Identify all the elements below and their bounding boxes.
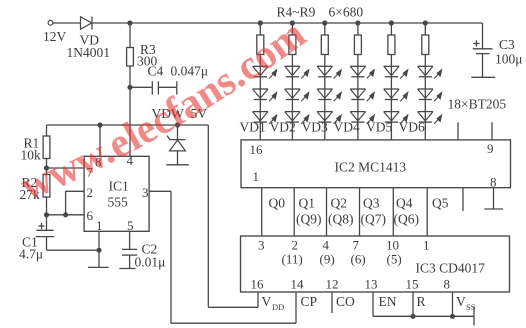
LED VD2 row2 xyxy=(285,89,309,101)
LED VD4 row1 xyxy=(350,66,374,78)
label VD2 xyxy=(270,120,296,135)
svg-text:(9): (9) xyxy=(320,252,335,267)
LED VD1 row1 xyxy=(253,66,277,78)
label C3 xyxy=(499,37,515,52)
pin 1 label xyxy=(253,169,260,184)
pin (6) label xyxy=(351,252,366,267)
LED VD2 row1 xyxy=(285,66,309,78)
label Q1 xyxy=(299,196,316,211)
label IC3 CD4017 xyxy=(416,261,486,276)
wire IC2 to IC3 #6 xyxy=(426,188,428,236)
svg-text:0.01μ: 0.01μ xyxy=(135,255,166,270)
wire VD1 row2-row3 xyxy=(259,100,261,112)
label 10k xyxy=(21,148,42,163)
label Q3 xyxy=(363,196,380,211)
wire VD3 row2-row3 xyxy=(324,100,326,112)
wire IC2 to IC3 #5 xyxy=(392,188,394,236)
pin 7 label xyxy=(87,165,94,180)
svg-text:VD4: VD4 xyxy=(334,120,360,135)
svg-text:VD2: VD2 xyxy=(270,120,296,135)
pin 8 label xyxy=(490,175,497,190)
label R4~R9 xyxy=(277,5,316,20)
pin 6 label xyxy=(87,208,94,223)
label R3 xyxy=(140,42,156,57)
resistor R4 xyxy=(257,23,264,66)
wire IC1 pin7 xyxy=(47,167,85,169)
svg-text:(Q7): (Q7) xyxy=(361,212,387,227)
svg-text:(6): (6) xyxy=(351,252,366,267)
svg-text:2: 2 xyxy=(87,185,94,200)
watermark www.elecfans.com xyxy=(14,11,314,210)
pin 1 label xyxy=(96,218,103,233)
wire VD2 to IC2 xyxy=(291,122,293,140)
LED VD3 row2 xyxy=(317,89,341,101)
svg-text:3: 3 xyxy=(258,238,265,253)
pin 7 label xyxy=(353,238,360,253)
label Q4 xyxy=(396,196,413,211)
svg-text:7: 7 xyxy=(353,238,360,253)
wire C1 to ground node xyxy=(47,249,100,251)
IC U2 MC1413 body xyxy=(241,140,511,188)
svg-text:CP: CP xyxy=(301,294,318,309)
wire VD1 row1-row2 xyxy=(259,77,261,89)
LED VD4 row2 xyxy=(350,89,374,101)
pin 12 label xyxy=(326,277,339,292)
svg-text:6×680: 6×680 xyxy=(329,5,364,20)
svg-text:2: 2 xyxy=(292,238,299,253)
resistor R9 xyxy=(422,23,429,66)
pin 16 label xyxy=(251,277,265,292)
pin 9 label xyxy=(487,141,494,156)
ground for VDW xyxy=(166,164,188,166)
label (Q8) xyxy=(328,212,354,227)
label R1 xyxy=(24,136,40,151)
svg-text:VD5: VD5 xyxy=(366,120,392,135)
label C4 xyxy=(148,64,164,79)
junction top rail / R6 xyxy=(323,21,327,25)
wire IC2 to IC3 #2 xyxy=(293,188,295,236)
wire VD6 row1-row2 xyxy=(424,77,426,89)
wire VD1 to IC2 xyxy=(259,122,261,140)
wire VD5 row1-row2 xyxy=(390,77,392,89)
svg-text:5: 5 xyxy=(127,218,134,233)
capacitor C4 xyxy=(130,81,177,94)
svg-text:16: 16 xyxy=(250,142,264,157)
LED VD1 row2 xyxy=(253,89,277,101)
IC U3 CD4017 body xyxy=(241,236,510,292)
zener diode VDW xyxy=(167,125,185,165)
label 0.01u xyxy=(135,255,166,270)
label VSS xyxy=(456,294,476,312)
label Q5 xyxy=(432,196,449,211)
label 4.7u xyxy=(19,247,43,262)
resistor R8 xyxy=(388,23,395,66)
svg-text:DD: DD xyxy=(272,302,284,312)
pin 8 label xyxy=(444,277,451,292)
label Q2 xyxy=(331,196,348,211)
label 6x680 xyxy=(329,5,364,20)
pin (9) label xyxy=(320,252,335,267)
resistor R7 xyxy=(354,23,361,66)
pin 5 label xyxy=(127,218,134,233)
junction top rail / R9 xyxy=(423,21,427,25)
wire VD5 to IC2 xyxy=(390,122,392,140)
pin 3 label xyxy=(142,185,149,200)
pin 15 label xyxy=(406,277,419,292)
IC2 unused top stub a xyxy=(457,122,459,140)
wire VD6 row2-row3 xyxy=(424,100,426,112)
label IC2 MC1413 xyxy=(335,160,407,175)
svg-text:1: 1 xyxy=(253,169,260,184)
svg-text:(5): (5) xyxy=(387,252,402,267)
pin 2 label xyxy=(87,185,94,200)
svg-text:1: 1 xyxy=(423,238,430,253)
svg-text:(Q6): (Q6) xyxy=(394,212,420,227)
svg-text:12V: 12V xyxy=(43,29,67,44)
junction R / bus xyxy=(411,314,415,318)
LED VD5 row3 xyxy=(384,112,408,124)
label 1N4001 xyxy=(67,45,111,60)
junction VSS / bus xyxy=(450,314,454,318)
svg-text:12: 12 xyxy=(326,277,339,292)
label VD5 xyxy=(366,120,392,135)
junction rail / IC1 pin8 xyxy=(98,123,102,127)
wire IC2 to IC3 #3 xyxy=(326,188,328,236)
op-amp/timer IC1 555 body xyxy=(84,156,149,231)
wire R stub xyxy=(412,292,414,316)
junction 12V rail / R3 xyxy=(128,21,132,25)
IC2 unused bottom stub xyxy=(462,188,464,211)
svg-text:1: 1 xyxy=(96,218,103,233)
ground below C3 xyxy=(471,76,495,78)
label 27k xyxy=(20,187,41,202)
label VDW 5V xyxy=(152,106,208,121)
svg-text:R: R xyxy=(417,294,426,309)
junction rail / zener xyxy=(175,123,179,127)
svg-text:IC1: IC1 xyxy=(109,179,129,194)
label VDD xyxy=(262,294,285,312)
diode VD 1N4001 xyxy=(81,17,93,30)
label CO xyxy=(336,294,355,309)
svg-text:C3: C3 xyxy=(499,37,515,52)
resistor R6 xyxy=(321,23,328,66)
LED VD2 row3 xyxy=(285,112,309,124)
IC2 unused top stub b xyxy=(491,122,493,140)
svg-text:IC3 CD4017: IC3 CD4017 xyxy=(416,261,486,276)
label R xyxy=(417,294,426,309)
label VD6 xyxy=(399,120,425,135)
wire EN/R/VSS ground bus xyxy=(373,315,474,317)
junction top rail / R4 xyxy=(258,21,262,25)
wire IC1 pin1 stub xyxy=(98,231,100,250)
label 12V xyxy=(43,29,67,44)
svg-text:100μ: 100μ xyxy=(495,52,523,67)
wire VD2 row2-row3 xyxy=(291,100,293,112)
svg-text:(Q8): (Q8) xyxy=(328,212,354,227)
pin 2 label xyxy=(292,238,299,253)
pin 1 label xyxy=(423,238,430,253)
label VD1 xyxy=(240,120,266,135)
pin 3 label xyxy=(258,238,265,253)
svg-text:Q0: Q0 xyxy=(269,196,286,211)
pin 16 label xyxy=(250,142,264,157)
junction IC1 pin1 / ground xyxy=(97,248,101,252)
resistor R3 xyxy=(127,23,134,156)
capacitor C3 xyxy=(473,40,493,77)
label R2 xyxy=(22,175,38,190)
LED VD4 row3 xyxy=(350,112,374,124)
svg-text:13: 13 xyxy=(365,277,378,292)
label VD xyxy=(80,33,100,48)
label 18xBT205 xyxy=(448,97,507,112)
junction top rail / R8 xyxy=(389,21,393,25)
LED VD3 row1 xyxy=(317,66,341,78)
label (Q9) xyxy=(296,212,322,227)
svg-text:(11): (11) xyxy=(282,252,303,267)
wire IC1 pin6 xyxy=(47,214,85,216)
ground below C2 xyxy=(119,268,135,270)
svg-text:Q1: Q1 xyxy=(299,196,316,211)
svg-text:V: V xyxy=(262,294,272,309)
svg-text:4.7μ: 4.7μ xyxy=(19,247,43,262)
label 100u xyxy=(495,52,523,67)
LED VD3 row3 xyxy=(317,112,341,124)
pin 13 label xyxy=(365,277,378,292)
capacitor C2 xyxy=(122,231,137,268)
label IC1 xyxy=(109,179,129,194)
svg-text:Q4: Q4 xyxy=(396,196,413,211)
label VD4 xyxy=(334,120,360,135)
junction pin2 jumper xyxy=(64,213,68,217)
LED VD1 row3 xyxy=(253,112,277,124)
ground below IC1 pin1 xyxy=(88,250,109,267)
wire VSS stub xyxy=(452,292,454,316)
wire VDW 5V rail xyxy=(47,124,209,126)
LED VD6 row1 xyxy=(418,66,442,78)
label 555 xyxy=(108,195,129,210)
svg-text:V: V xyxy=(456,294,466,309)
LED VD5 row1 xyxy=(384,66,408,78)
svg-text:C4: C4 xyxy=(148,64,164,79)
svg-text:9: 9 xyxy=(487,141,494,156)
ground below IC2 pin8 xyxy=(484,208,503,210)
junction top rail / R5 xyxy=(290,21,294,25)
pin 8 label xyxy=(95,155,102,170)
label CP xyxy=(301,294,318,309)
wire terminal to diode xyxy=(53,22,81,24)
LED VD6 row3 xyxy=(418,112,442,124)
wire VD3 to IC2 xyxy=(324,122,326,140)
label Q0 xyxy=(269,196,286,211)
LED VD5 row2 xyxy=(384,89,408,101)
label VD3 xyxy=(302,120,328,135)
svg-text:Q5: Q5 xyxy=(432,196,449,211)
svg-text:(Q9): (Q9) xyxy=(296,212,322,227)
label 300 xyxy=(137,54,158,69)
wire rail to C3 xyxy=(482,23,484,49)
svg-text:18×BT205: 18×BT205 xyxy=(448,97,507,112)
svg-text:4: 4 xyxy=(323,238,330,253)
pin 14 label xyxy=(291,277,305,292)
junction top rail / R7 xyxy=(356,21,360,25)
svg-text:8: 8 xyxy=(490,175,497,190)
svg-text:EN: EN xyxy=(379,294,397,309)
wire 12V top rail xyxy=(92,22,483,24)
label C1 xyxy=(22,235,38,250)
wire VD5 row2-row3 xyxy=(390,100,392,112)
wire VD4 to IC2 xyxy=(357,122,359,140)
label EN xyxy=(379,294,397,309)
svg-text:VD3: VD3 xyxy=(302,120,328,135)
svg-text:VD6: VD6 xyxy=(399,120,425,135)
svg-text:14: 14 xyxy=(291,277,305,292)
resistor R5 xyxy=(289,23,296,66)
IC2 pin8 ground stub xyxy=(493,188,495,209)
pin 4 label xyxy=(127,153,134,168)
wire IC1 pin2 jumper xyxy=(66,191,85,215)
wire IC1 pin3 to IC3 CP xyxy=(149,191,296,323)
resistor R2 xyxy=(43,175,50,231)
resistor R1 xyxy=(43,125,50,175)
svg-text:15: 15 xyxy=(406,277,419,292)
label 0.047u xyxy=(171,64,209,79)
junction R2/C1/pin6 xyxy=(44,213,48,217)
svg-text:555: 555 xyxy=(108,195,129,210)
wire VD4 row1-row2 xyxy=(357,77,359,89)
svg-text:6: 6 xyxy=(87,208,94,223)
junction R3 line / C4 xyxy=(128,85,132,89)
wire IC2 to IC3 #4 xyxy=(359,188,361,236)
wire VD3 row1-row2 xyxy=(324,77,326,89)
svg-text:Q2: Q2 xyxy=(331,196,348,211)
svg-text:VD1: VD1 xyxy=(240,120,266,135)
IC3 CO stub xyxy=(331,292,333,313)
svg-text:16: 16 xyxy=(251,277,265,292)
svg-text:10: 10 xyxy=(386,238,399,253)
pin (5) label xyxy=(387,252,402,267)
wire EN stub xyxy=(372,292,374,316)
pin 4 label xyxy=(323,238,330,253)
svg-text:1N4001: 1N4001 xyxy=(67,45,111,60)
label C2 xyxy=(142,242,158,257)
wire VD6 to IC2 xyxy=(424,122,426,140)
wire VD4 row2-row3 xyxy=(357,100,359,112)
svg-text:8: 8 xyxy=(444,277,451,292)
ground bar right end xyxy=(473,307,475,326)
wire IC2 to IC3 #1 xyxy=(261,188,263,236)
label (Q7) xyxy=(361,212,387,227)
pin (11) label xyxy=(282,252,303,267)
wire IC1 pin8 stub xyxy=(99,125,101,156)
wire VD2 row1-row2 xyxy=(291,77,293,89)
svg-text:3: 3 xyxy=(142,185,149,200)
pin 10 label xyxy=(386,238,399,253)
svg-text:Q3: Q3 xyxy=(363,196,380,211)
capacitor C1 xyxy=(36,223,54,250)
LED VD6 row2 xyxy=(418,89,442,101)
node 12V input terminal xyxy=(48,20,53,25)
junction R1/R2/pin7 xyxy=(44,166,48,170)
label (Q6) xyxy=(394,212,420,227)
wire 5V rail to IC3 VDD xyxy=(208,125,258,307)
svg-text:IC2 MC1413: IC2 MC1413 xyxy=(335,160,407,175)
svg-text:CO: CO xyxy=(336,294,355,309)
